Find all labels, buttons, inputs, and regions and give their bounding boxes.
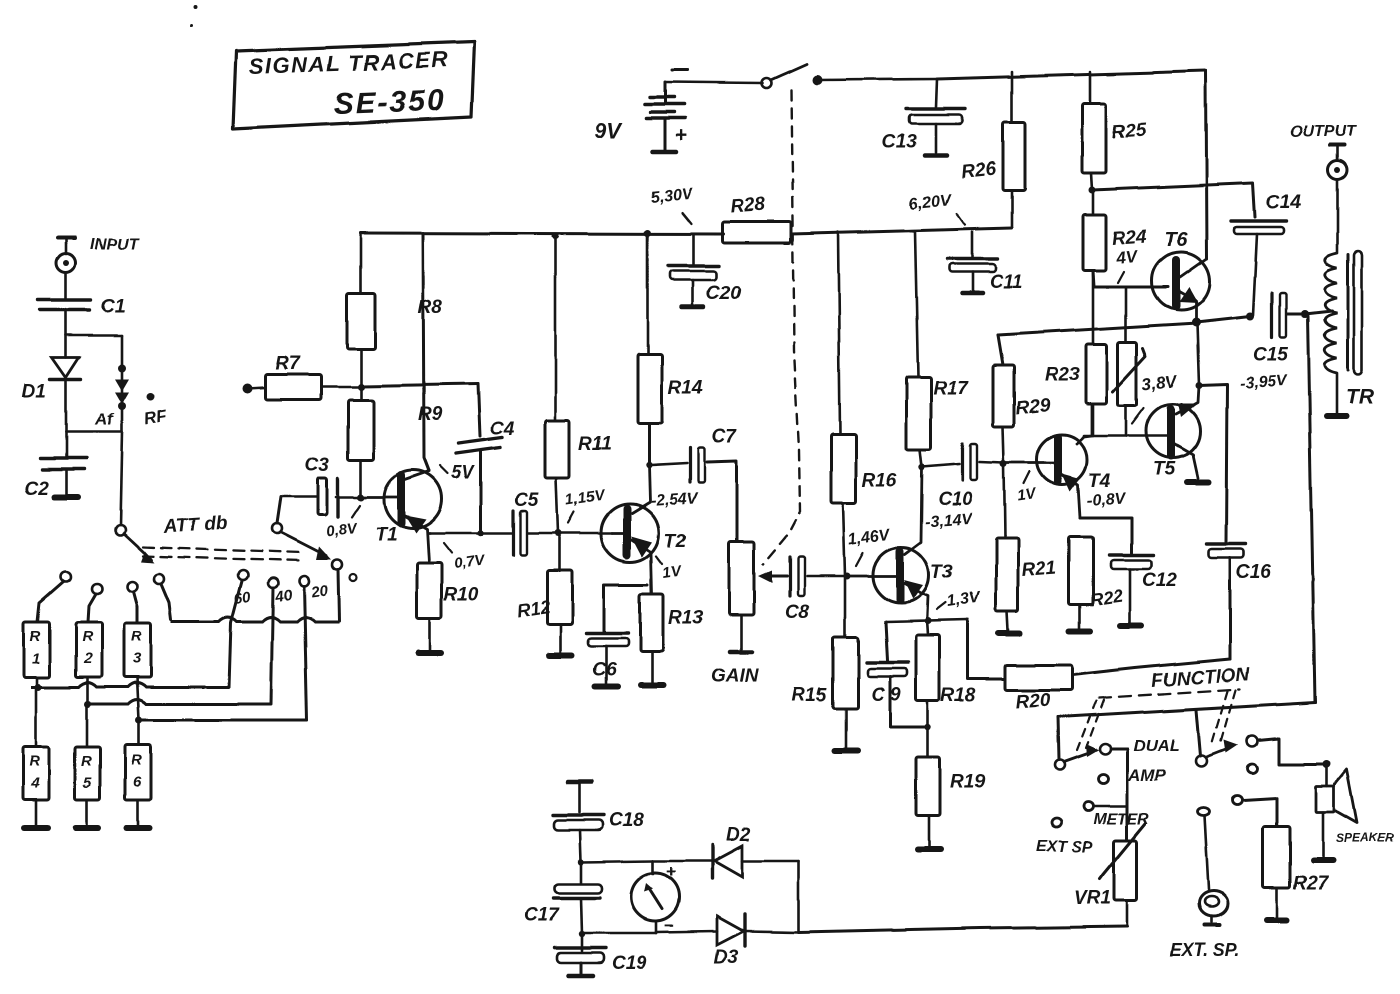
svg-text:C15: C15	[1253, 345, 1288, 366]
svg-text:R19: R19	[950, 772, 985, 793]
svg-text:R: R	[131, 752, 142, 769]
svg-text:C7: C7	[712, 427, 738, 448]
svg-text:C8: C8	[785, 602, 810, 623]
svg-text:C16: C16	[1236, 562, 1271, 583]
svg-text:+: +	[675, 124, 687, 147]
svg-text:RF: RF	[142, 406, 168, 429]
svg-text:DUAL: DUAL	[1133, 736, 1180, 755]
svg-text:R14: R14	[668, 378, 703, 399]
svg-text:2: 2	[83, 650, 93, 667]
svg-text:T3: T3	[931, 562, 954, 583]
svg-text:6: 6	[133, 774, 142, 791]
svg-text:C2: C2	[24, 478, 49, 499]
svg-text:AMP: AMP	[1127, 766, 1166, 785]
svg-text:4V: 4V	[1114, 247, 1139, 268]
svg-text:VR1: VR1	[1074, 888, 1111, 909]
svg-text:OUTPUT: OUTPUT	[1290, 123, 1357, 140]
svg-text:R: R	[29, 753, 40, 770]
svg-text:D2: D2	[726, 825, 751, 846]
svg-text:C3: C3	[305, 455, 330, 476]
svg-text:C6: C6	[592, 660, 617, 681]
svg-text:Af: Af	[94, 410, 115, 429]
svg-text:R27: R27	[1293, 873, 1329, 894]
svg-text:5: 5	[83, 775, 92, 792]
svg-text:R: R	[82, 628, 93, 645]
svg-text:C10: C10	[938, 489, 973, 510]
svg-text:R17: R17	[933, 378, 969, 399]
svg-text:5V: 5V	[452, 463, 476, 483]
svg-text:SPEAKER: SPEAKER	[1336, 831, 1394, 845]
svg-text:C1: C1	[101, 296, 125, 317]
svg-text:SE-350: SE-350	[333, 84, 446, 121]
svg-text:R21: R21	[1021, 558, 1057, 581]
svg-text:R: R	[30, 628, 41, 645]
svg-text:C11: C11	[989, 272, 1022, 293]
svg-text:R16: R16	[862, 470, 897, 491]
svg-text:R11: R11	[578, 434, 611, 455]
svg-text:T4: T4	[1088, 471, 1111, 492]
svg-text:R20: R20	[1015, 690, 1052, 713]
svg-text:D3: D3	[714, 947, 739, 968]
svg-text:METER: METER	[1093, 811, 1149, 828]
svg-text:EXT. SP.: EXT. SP.	[1169, 940, 1239, 960]
svg-text:EXT SP: EXT SP	[1036, 839, 1093, 856]
svg-text:C19: C19	[612, 953, 647, 974]
svg-text:T2: T2	[664, 531, 687, 552]
svg-text:R23: R23	[1045, 364, 1080, 385]
svg-text:D1: D1	[22, 381, 46, 402]
svg-text:C 9: C 9	[871, 684, 901, 705]
svg-text:R28: R28	[730, 195, 767, 218]
svg-text:R25: R25	[1111, 120, 1148, 143]
svg-text:-2,54V: -2,54V	[650, 490, 700, 510]
svg-text:T1: T1	[375, 524, 397, 545]
svg-text:4: 4	[30, 775, 40, 792]
svg-text:R: R	[131, 628, 142, 645]
svg-text:R10: R10	[444, 585, 479, 606]
svg-text:9V: 9V	[594, 118, 623, 143]
svg-text:R7: R7	[275, 354, 301, 375]
svg-text:1: 1	[32, 650, 40, 667]
svg-text:-3,14V: -3,14V	[924, 511, 974, 531]
svg-text:3,8V: 3,8V	[1141, 371, 1179, 394]
svg-text:INPUT: INPUT	[90, 236, 139, 253]
svg-text:C18: C18	[609, 810, 644, 831]
svg-text:C12: C12	[1142, 570, 1177, 591]
svg-text:C4: C4	[490, 419, 515, 440]
svg-text:R18: R18	[941, 685, 976, 706]
svg-text:GAIN: GAIN	[711, 666, 760, 687]
svg-text:20: 20	[309, 582, 330, 601]
svg-text:T5: T5	[1153, 459, 1176, 480]
svg-text:R15: R15	[792, 685, 827, 706]
svg-text:R9: R9	[418, 404, 443, 425]
svg-text:TR: TR	[1346, 385, 1375, 408]
svg-text:3: 3	[133, 650, 142, 667]
svg-text:C14: C14	[1266, 192, 1301, 213]
svg-text:R8: R8	[418, 297, 443, 318]
svg-text:40: 40	[273, 587, 294, 606]
svg-text:C20: C20	[706, 283, 741, 304]
svg-text:R: R	[81, 753, 92, 770]
svg-text:C13: C13	[882, 132, 917, 153]
svg-text:C5: C5	[514, 490, 539, 511]
svg-text:R24: R24	[1111, 227, 1148, 250]
svg-text:R29: R29	[1014, 394, 1051, 419]
svg-text:+: +	[666, 862, 676, 881]
svg-text:-3,95V: -3,95V	[1239, 373, 1289, 393]
svg-text:T6: T6	[1164, 229, 1188, 251]
svg-text:R26: R26	[960, 158, 997, 183]
svg-text:-0,8V: -0,8V	[1086, 490, 1127, 510]
svg-text:C17: C17	[524, 905, 560, 926]
svg-text:R13: R13	[668, 608, 703, 629]
